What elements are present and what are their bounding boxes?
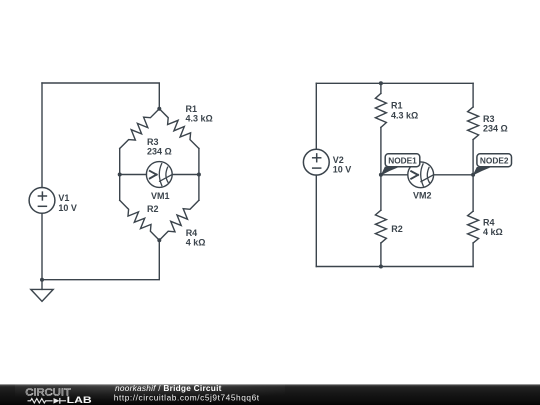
svg-text:CIRCUIT: CIRCUIT xyxy=(25,387,71,398)
svg-text:4 kΩ: 4 kΩ xyxy=(186,238,206,248)
voltage source V1 xyxy=(29,188,55,214)
svg-text:4 kΩ: 4 kΩ xyxy=(483,227,503,237)
wire bridge right vertical xyxy=(198,149,200,201)
wire R2 to bottom xyxy=(380,243,382,267)
svg-text:V2: V2 xyxy=(333,155,344,165)
wire left vertical to V1 top xyxy=(41,83,43,188)
logo resistor-diode symbol xyxy=(28,398,67,404)
node: left bridge right xyxy=(197,173,201,177)
V2 plus sign xyxy=(313,154,321,162)
wire top stub right branch xyxy=(472,83,474,107)
svg-text:V1: V1 xyxy=(58,193,69,203)
svg-text:10 V: 10 V xyxy=(58,203,77,213)
resistor R1 (left bridge, top-right diagonal) xyxy=(159,109,199,149)
resistor R3 (left bridge, top-left diagonal) xyxy=(120,109,160,149)
node NODE1 junction xyxy=(379,173,383,177)
svg-text:LAB: LAB xyxy=(67,395,93,405)
resistor R3 (right circuit) xyxy=(468,107,479,140)
wire bridge left vertical xyxy=(119,149,121,201)
svg-text:VM2: VM2 xyxy=(413,191,432,201)
svg-text:10 V: 10 V xyxy=(333,165,352,175)
node flag NODE2 xyxy=(473,154,512,176)
wire R3 to NODE2 xyxy=(472,140,474,175)
wire R1 to NODE1 xyxy=(380,127,382,174)
resistor R2 (left bridge, bottom-left diagonal) xyxy=(120,200,160,240)
svg-text:R3: R3 xyxy=(147,137,159,147)
svg-text:R2: R2 xyxy=(147,204,159,214)
wire V1 bottom to ground corner xyxy=(41,213,43,279)
wire V2 bottom to bottom-left corner xyxy=(315,175,317,266)
node NODE2 junction xyxy=(471,173,475,177)
wire top (left circuit) xyxy=(42,83,159,109)
wire R4 to bottom xyxy=(472,243,474,267)
svg-text:R1: R1 xyxy=(391,101,403,111)
svg-text:noorkashif / Bridge Circuit: noorkashif / Bridge Circuit xyxy=(115,383,222,393)
node: left bridge top xyxy=(157,107,161,111)
svg-text:NODE1: NODE1 xyxy=(388,155,417,165)
wire bridge left node to VM1 xyxy=(120,174,147,176)
node: right circuit top xyxy=(379,81,383,85)
resistor R4 (left bridge, bottom-right diagonal) xyxy=(159,200,199,240)
svg-text:234 Ω: 234 Ω xyxy=(483,123,508,133)
svg-text:R2: R2 xyxy=(391,224,403,234)
voltmeter VM2 xyxy=(408,162,434,188)
wire VM2 to NODE2 xyxy=(434,174,474,176)
resistor R1 (right circuit) xyxy=(375,93,386,127)
wire NODE2 to R4 xyxy=(472,175,474,211)
ground xyxy=(31,280,53,302)
svg-text:4.3 kΩ: 4.3 kΩ xyxy=(391,110,418,120)
svg-text:NODE2: NODE2 xyxy=(480,155,509,165)
svg-text:R4: R4 xyxy=(483,218,495,228)
wire NODE1 to R2 xyxy=(380,175,382,210)
svg-text:R1: R1 xyxy=(186,104,198,114)
V1 plus sign xyxy=(38,192,46,200)
footer bar xyxy=(0,384,540,405)
svg-text:234 Ω: 234 Ω xyxy=(147,146,172,156)
svg-text:4.3 kΩ: 4.3 kΩ xyxy=(186,114,213,124)
voltage source V2 xyxy=(303,149,329,175)
voltmeter VM1 xyxy=(146,162,172,188)
wire VM1 to bridge right node xyxy=(172,174,199,176)
wire left vertical to V2 top xyxy=(315,83,317,149)
svg-text:R4: R4 xyxy=(186,228,198,238)
wire top stub middle branch xyxy=(380,83,382,93)
resistor R2 (right circuit) xyxy=(375,210,386,243)
node: left bridge left xyxy=(118,173,122,177)
wire top (right circuit) xyxy=(316,82,473,84)
node: left bridge bottom xyxy=(157,238,161,242)
svg-text:VM1: VM1 xyxy=(151,191,170,201)
svg-text:http://circuitlab.com/c5j9t745: http://circuitlab.com/c5j9t745hqq6t xyxy=(114,393,260,403)
wire bottom (right circuit) xyxy=(316,266,473,268)
V1 minus sign xyxy=(38,205,46,207)
node: right circuit bottom xyxy=(379,265,383,269)
node: ground corner xyxy=(40,278,44,282)
V2 minus sign xyxy=(313,167,321,169)
wire NODE1 to VM2 xyxy=(381,174,408,176)
wire bottom (left circuit) xyxy=(42,240,159,280)
resistor R4 (right circuit) xyxy=(468,211,479,243)
node flag NODE1 xyxy=(381,154,420,176)
svg-text:R3: R3 xyxy=(483,114,495,124)
